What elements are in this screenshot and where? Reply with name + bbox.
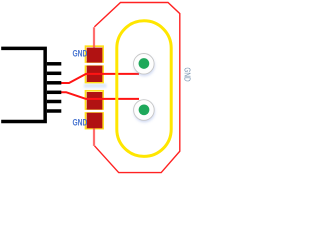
svg-text:GND: GND	[183, 67, 193, 81]
svg-text:GND: GND	[73, 118, 88, 128]
svg-text:GND: GND	[73, 48, 88, 58]
